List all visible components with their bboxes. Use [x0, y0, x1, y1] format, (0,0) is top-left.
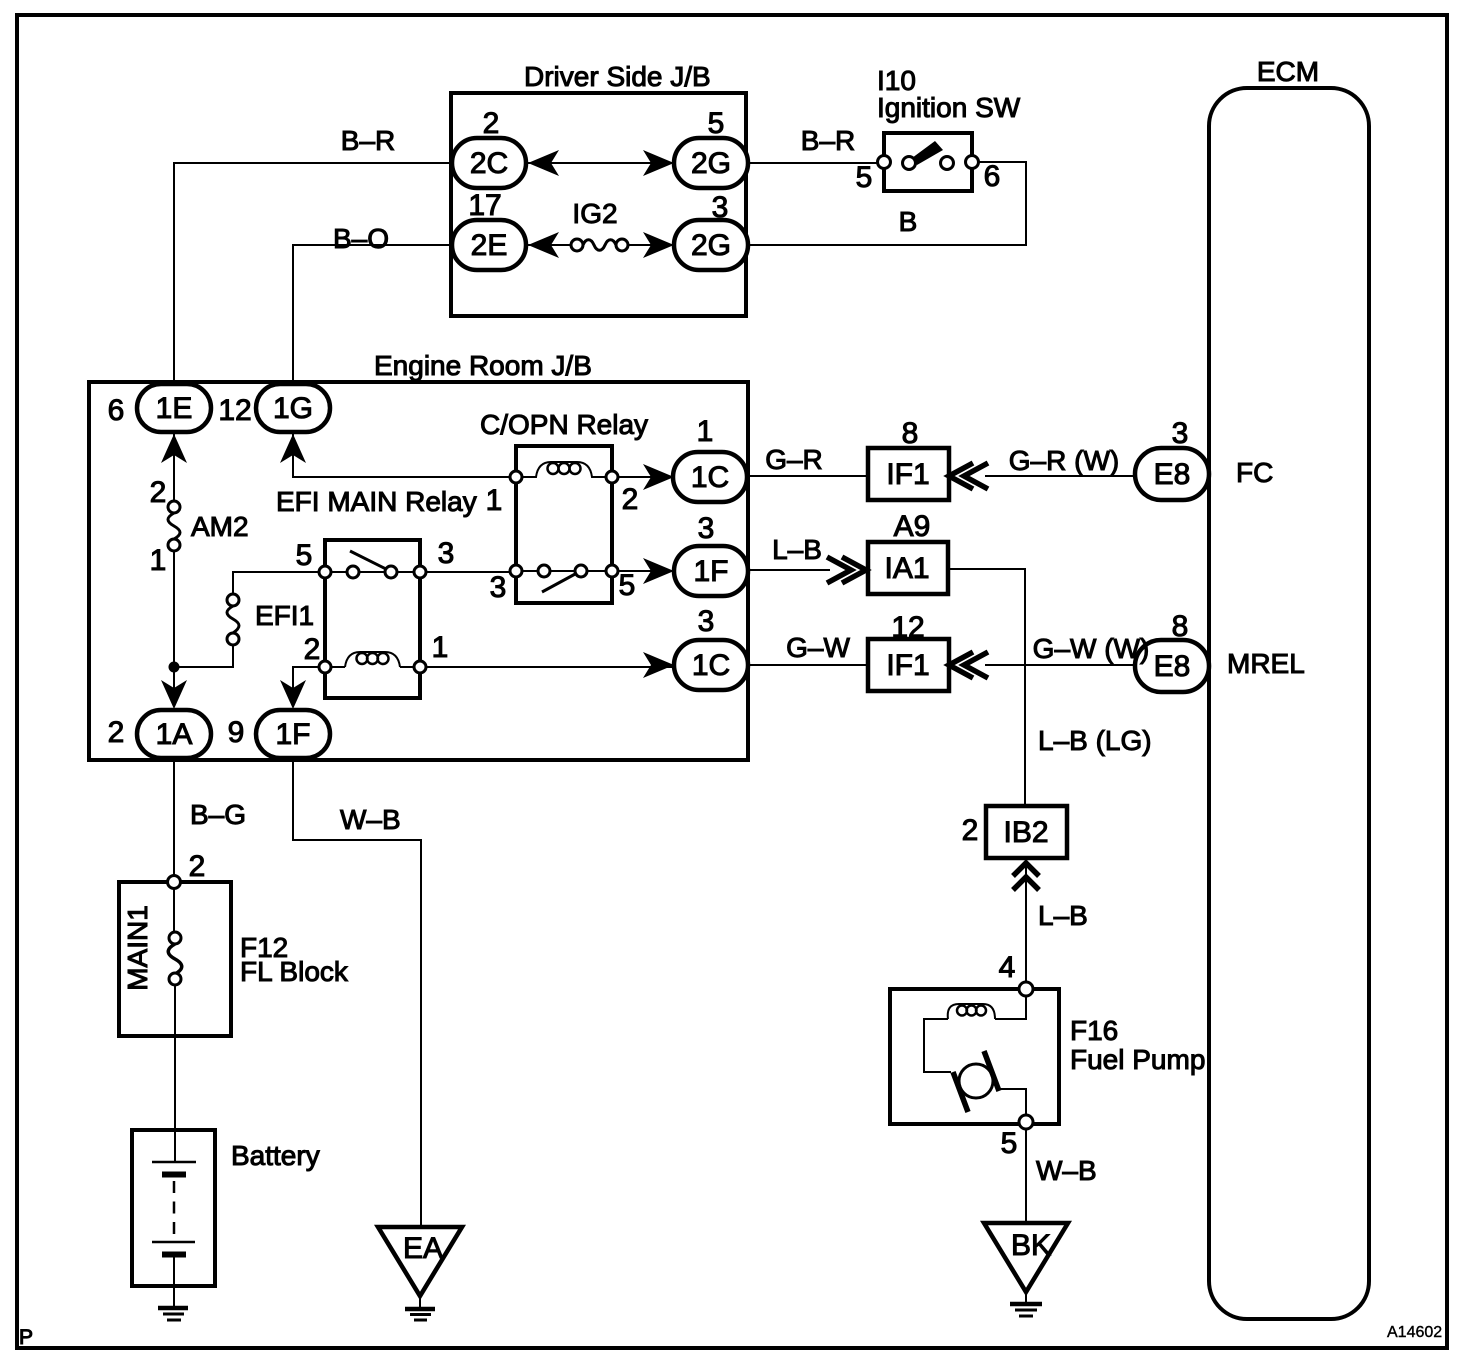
- svg-text:F16: F16: [1070, 1015, 1118, 1046]
- chevrons into IB2: [1013, 863, 1039, 890]
- wire EFI MAIN relay switch row: [331, 571, 414, 573]
- svg-text:2: 2: [962, 814, 979, 847]
- battery plate long bottom: [152, 1241, 195, 1244]
- fusible link MAIN1 squiggle: [168, 944, 182, 974]
- connector oval 1E: [137, 384, 211, 432]
- svg-text:G–W (W): G–W (W): [1033, 633, 1150, 664]
- arrow into 1C bottom: [643, 652, 674, 678]
- fuel pump motor circle: [959, 1064, 993, 1098]
- fuel pump coil: [948, 1004, 995, 1019]
- svg-text:B–G: B–G: [190, 799, 246, 830]
- svg-text:1: 1: [150, 544, 167, 577]
- arrow up into 1E: [161, 434, 187, 463]
- svg-text:17: 17: [468, 189, 501, 222]
- arrow down into 1A: [161, 680, 187, 709]
- svg-text:IF1: IF1: [886, 458, 929, 491]
- svg-text:5: 5: [296, 539, 313, 572]
- arrow into 2E: [528, 232, 559, 258]
- svg-text:B–R: B–R: [801, 125, 855, 156]
- wire B-R from 2C to 1E: [174, 163, 452, 392]
- arrow down into 1F: [280, 680, 306, 709]
- svg-text:12: 12: [891, 611, 924, 644]
- wire L-B 1F to IA1 chevrons: [748, 569, 830, 571]
- EFI MAIN relay switch contacts: [347, 566, 359, 578]
- svg-text:G–W: G–W: [786, 632, 850, 663]
- svg-text:2: 2: [304, 633, 321, 666]
- svg-text:2: 2: [622, 483, 639, 516]
- fuse EFI1 terminal circles: [227, 594, 239, 606]
- EFI MAIN relay switch lever: [350, 551, 386, 569]
- chevrons into IA1: [827, 557, 866, 583]
- C/OPN relay switch pins 3,5: [510, 565, 522, 577]
- fuse AM2 squiggle: [168, 513, 180, 539]
- wire fuel pump internal top lead: [924, 996, 1026, 1072]
- svg-text:3: 3: [1172, 417, 1189, 450]
- svg-text:2C: 2C: [470, 147, 508, 180]
- svg-text:6: 6: [108, 394, 125, 427]
- svg-text:Ignition SW: Ignition SW: [877, 92, 1021, 123]
- svg-text:E8: E8: [1154, 650, 1191, 683]
- svg-text:3: 3: [438, 537, 455, 570]
- svg-text:FL Block: FL Block: [240, 956, 349, 987]
- connector oval 1C pin 3: [674, 640, 748, 690]
- connector oval 1A: [137, 710, 211, 758]
- svg-text:4: 4: [999, 951, 1016, 984]
- svg-text:2G: 2G: [691, 229, 731, 262]
- wire 1G down to C/OPN relay pin 1: [293, 428, 510, 477]
- svg-text:3: 3: [698, 605, 715, 638]
- battery dashed center line: [173, 1181, 176, 1240]
- svg-text:W–B: W–B: [1036, 1155, 1097, 1186]
- ignition switch contact circles: [903, 157, 916, 170]
- ignition switch lever: [912, 141, 943, 165]
- fuse EFI1 squiggle: [227, 606, 239, 633]
- svg-text:5: 5: [1001, 1127, 1018, 1160]
- svg-text:B: B: [899, 206, 918, 237]
- svg-text:W–B: W–B: [340, 804, 401, 835]
- wire EFI1 branch: [174, 572, 319, 667]
- svg-text:IF1: IF1: [886, 649, 929, 682]
- fuel pump brush bars: [953, 1051, 999, 1112]
- svg-text:8: 8: [902, 417, 919, 450]
- connector IB2 box: [986, 806, 1067, 858]
- svg-text:2E: 2E: [471, 229, 508, 262]
- wire IB2 down to fuel pump pin 4: [1025, 858, 1027, 982]
- svg-text:B–O: B–O: [333, 223, 389, 254]
- svg-text:A9: A9: [894, 510, 931, 543]
- wire IA1 to IB2 vertical L-B (LG): [946, 569, 1025, 806]
- EFI MAIN relay coil: [345, 652, 400, 667]
- svg-text:L–B: L–B: [1038, 900, 1088, 931]
- wire EFI pin1 to 1C lower: [426, 666, 674, 668]
- fuse IG2 squiggle: [583, 240, 616, 251]
- ECM U1 outline: [1209, 88, 1369, 1319]
- FL block F12 box: [119, 882, 231, 1036]
- wire EA apex to ground: [419, 1296, 421, 1308]
- connector oval 2G pin 3: [674, 220, 748, 270]
- svg-text:IA1: IA1: [884, 552, 929, 585]
- fuel pump F16 box: [890, 989, 1059, 1124]
- svg-text:L–B (LG): L–B (LG): [1038, 725, 1152, 756]
- svg-text:2G: 2G: [691, 147, 731, 180]
- svg-text:2: 2: [189, 850, 206, 883]
- svg-text:BK: BK: [1011, 1229, 1051, 1262]
- ignition switch I10 box: [884, 133, 972, 191]
- svg-text:1C: 1C: [692, 649, 730, 682]
- connector IA1 box: [868, 542, 948, 594]
- svg-text:12: 12: [218, 394, 251, 427]
- wire AM2 branch vertical 1E to 1A: [173, 430, 175, 706]
- battery plate thick top: [162, 1172, 186, 1178]
- wire W-B from 1F to EA ground: [293, 756, 421, 1227]
- C/OPN relay coil pins 1,2: [510, 471, 522, 483]
- svg-text:ECM: ECM: [1257, 56, 1319, 87]
- wire B-O from 2E to 1G: [293, 245, 452, 392]
- svg-text:AM2: AM2: [191, 511, 249, 542]
- svg-text:1F: 1F: [275, 718, 310, 751]
- battery plate long top: [152, 1161, 196, 1164]
- wire BK apex to ground: [1025, 1292, 1027, 1303]
- svg-text:Driver Side J/B: Driver Side J/B: [524, 61, 711, 92]
- wire G-R 1C to IF1: [747, 475, 868, 477]
- wire 2G to ignition SW pin 5: [748, 162, 878, 164]
- ground symbol below BK: [1010, 1302, 1042, 1307]
- svg-text:G–R: G–R: [765, 444, 823, 475]
- EFI MAIN relay switch pins 5,3: [319, 566, 331, 578]
- svg-text:MAIN1: MAIN1: [122, 905, 153, 991]
- battery box: [132, 1130, 215, 1286]
- C/OPN relay switch lever: [542, 573, 577, 592]
- svg-text:Battery: Battery: [231, 1140, 320, 1171]
- svg-text:MREL: MREL: [1227, 648, 1305, 679]
- arrow into 1F middle: [643, 558, 674, 584]
- ground symbol below EA: [405, 1307, 435, 1312]
- svg-text:5: 5: [619, 569, 636, 602]
- Engine Room J/B box: [89, 382, 748, 760]
- fuel pump pins 4,5: [1019, 982, 1033, 996]
- wire G-W (W) IF1 to E8 lower: [985, 664, 1136, 666]
- svg-text:1F: 1F: [693, 555, 728, 588]
- wire C/OPN pin5 to 1F: [618, 570, 674, 572]
- svg-text:G–R (W): G–R (W): [1009, 445, 1119, 476]
- Driver Side J/B box: [451, 93, 746, 316]
- svg-text:1C: 1C: [691, 461, 729, 494]
- svg-text:IB2: IB2: [1003, 816, 1048, 849]
- svg-text:B–R: B–R: [341, 125, 395, 156]
- wire G-R (W) IF1 to E8: [985, 475, 1136, 477]
- fuse IG2 terminal circles: [571, 239, 583, 251]
- svg-text:3: 3: [712, 191, 729, 224]
- wire fuel pump pin5 to BK ground: [1025, 1129, 1027, 1223]
- junction node AM2/EFI1: [169, 662, 180, 673]
- C/OPN relay box: [516, 446, 612, 603]
- arrow into 2G top: [643, 150, 674, 176]
- ignition switch terminals 5 and 6: [878, 156, 891, 169]
- svg-text:1: 1: [486, 484, 503, 517]
- svg-text:2: 2: [150, 476, 167, 509]
- svg-text:IG2: IG2: [572, 198, 617, 229]
- wire FL block internal to battery: [174, 888, 175, 1162]
- ground triangle BK: [984, 1223, 1068, 1292]
- C/OPN relay switch contacts: [538, 565, 550, 577]
- svg-text:FC: FC: [1236, 457, 1273, 488]
- svg-text:EA: EA: [403, 1232, 443, 1265]
- svg-text:2: 2: [483, 107, 500, 140]
- svg-text:P: P: [19, 1326, 33, 1349]
- ground triangle EA: [378, 1227, 462, 1296]
- wire EFI pin2 to 1F connector: [293, 667, 319, 706]
- wire B ignition SW pin 6 loop to 2G: [748, 162, 1026, 245]
- connector oval 1G: [256, 384, 330, 432]
- arrow up into 1G: [280, 434, 306, 463]
- wire EFI pin3 to C/OPN pin3: [426, 571, 510, 573]
- FL block pin 2 circle: [168, 876, 181, 889]
- connector oval 2C: [452, 138, 526, 188]
- connector oval 2G pin 5: [674, 138, 748, 188]
- svg-text:C/OPN Relay: C/OPN Relay: [480, 409, 648, 440]
- wire Driver J/B row1 2C-2G: [528, 162, 674, 164]
- arrow into 2C: [528, 150, 559, 176]
- svg-text:1A: 1A: [156, 718, 193, 751]
- connector oval E8 pin 8 MREL: [1135, 640, 1209, 692]
- svg-text:1G: 1G: [273, 392, 313, 425]
- svg-text:8: 8: [1172, 610, 1189, 643]
- svg-text:5: 5: [856, 161, 873, 194]
- connector oval 2E: [452, 220, 526, 270]
- svg-text:EFI1: EFI1: [255, 600, 314, 631]
- connector oval 1F pin 3: [674, 546, 748, 596]
- wire battery minus to ground: [173, 1257, 175, 1306]
- wire fuel pump internal bottom lead: [999, 1089, 1026, 1115]
- chevrons into IF1 top: [949, 463, 988, 489]
- wire C/OPN pin 2 to 1C: [618, 476, 674, 478]
- EFI MAIN relay box: [325, 540, 420, 698]
- svg-text:Engine Room J/B: Engine Room J/B: [374, 350, 592, 381]
- svg-text:1E: 1E: [156, 392, 193, 425]
- arrow into 1C top: [643, 464, 674, 490]
- arrow into 2G bottom: [643, 232, 674, 258]
- connector IF1 box (MREL line): [868, 639, 949, 691]
- ground symbol below battery: [158, 1306, 188, 1311]
- svg-text:6: 6: [984, 160, 1001, 193]
- chevrons into IF1 bottom: [949, 652, 988, 678]
- svg-text:3: 3: [490, 571, 507, 604]
- svg-text:Fuel Pump: Fuel Pump: [1070, 1044, 1205, 1075]
- connector oval 1C pin 1: [673, 452, 747, 502]
- svg-text:1: 1: [432, 631, 449, 664]
- svg-text:A14602: A14602: [1387, 1324, 1442, 1341]
- wire 1A to FL block: [173, 756, 175, 875]
- fuse AM2 terminal circles: [168, 501, 180, 513]
- wire G-W 1C to IF1 lower: [748, 664, 868, 666]
- svg-text:1: 1: [697, 415, 714, 448]
- wire EFI coil leads: [331, 666, 414, 668]
- C/OPN relay coil: [522, 462, 606, 477]
- svg-text:9: 9: [228, 716, 245, 749]
- EFI MAIN relay coil pins 2,1: [319, 661, 331, 673]
- svg-text:2: 2: [108, 716, 125, 749]
- connector oval E8 pin 3 FC: [1135, 448, 1209, 500]
- svg-text:L–B: L–B: [772, 534, 822, 565]
- connector IF1 box (FC line): [868, 448, 949, 500]
- svg-text:E8: E8: [1154, 458, 1191, 491]
- svg-text:3: 3: [698, 512, 715, 545]
- fusible link MAIN1 terminal circles: [169, 932, 181, 944]
- wire Driver J/B row2 2G side: [628, 244, 674, 246]
- svg-text:EFI MAIN Relay: EFI MAIN Relay: [276, 486, 477, 517]
- svg-text:5: 5: [708, 107, 725, 140]
- wire Driver J/B row2 2E side: [528, 244, 571, 246]
- connector oval 1F pin 9: [256, 710, 330, 758]
- battery plate thick bottom: [162, 1252, 186, 1258]
- wire C/OPN switch row: [522, 570, 606, 572]
